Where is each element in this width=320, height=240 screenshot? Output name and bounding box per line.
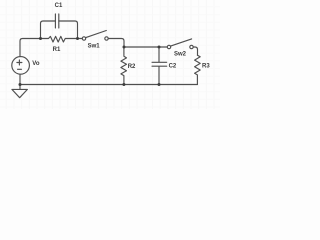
- node E junction dot: [19, 83, 22, 86]
- wire Sw1 to node C: [108, 39, 124, 48]
- label R1: [53, 47, 61, 53]
- resistor R1: [41, 36, 83, 42]
- wire bottom rail: [20, 84, 198, 86]
- wire C1 branch: [41, 21, 78, 39]
- label Sw1: [88, 43, 101, 49]
- label C1: [55, 3, 63, 9]
- svg-text:R1: R1: [53, 47, 61, 53]
- label C2: [169, 63, 177, 69]
- background grid: [0, 0, 220, 109]
- node A junction dot: [39, 37, 42, 40]
- voltage source V0: [12, 57, 30, 85]
- node F junction dot: [122, 83, 125, 86]
- switch Sw1 terminals: [82, 37, 108, 40]
- svg-text:R3: R3: [202, 63, 210, 69]
- wire V0 top to node A: [20, 39, 41, 57]
- capacitor C2: [152, 47, 167, 85]
- wire Sw2 to R3: [193, 47, 197, 55]
- svg-text:Sw2: Sw2: [174, 51, 187, 57]
- wire node D to Sw2: [159, 46, 167, 48]
- wire node C to node D: [124, 46, 159, 48]
- svg-text:Sw1: Sw1: [88, 43, 101, 49]
- node D junction dot: [158, 46, 161, 49]
- node G junction dot: [158, 83, 161, 86]
- capacitor C1: [55, 14, 58, 28]
- label R3: [202, 63, 210, 69]
- resistor R2: [121, 47, 127, 85]
- node B junction dot: [76, 37, 79, 40]
- ground: [12, 85, 28, 98]
- svg-text:R2: R2: [128, 64, 136, 70]
- svg-text:Vo: Vo: [32, 61, 40, 67]
- resistor R3: [195, 55, 201, 84]
- switch Sw2 lever: [171, 39, 192, 46]
- label R2: [128, 64, 136, 70]
- svg-text:C1: C1: [55, 3, 63, 9]
- label Vo: [32, 61, 40, 67]
- switch Sw1 lever: [86, 31, 107, 38]
- label Sw2: [174, 51, 187, 57]
- node C junction dot: [123, 46, 126, 49]
- switch Sw2 terminals: [167, 45, 193, 48]
- svg-text:C2: C2: [169, 63, 177, 69]
